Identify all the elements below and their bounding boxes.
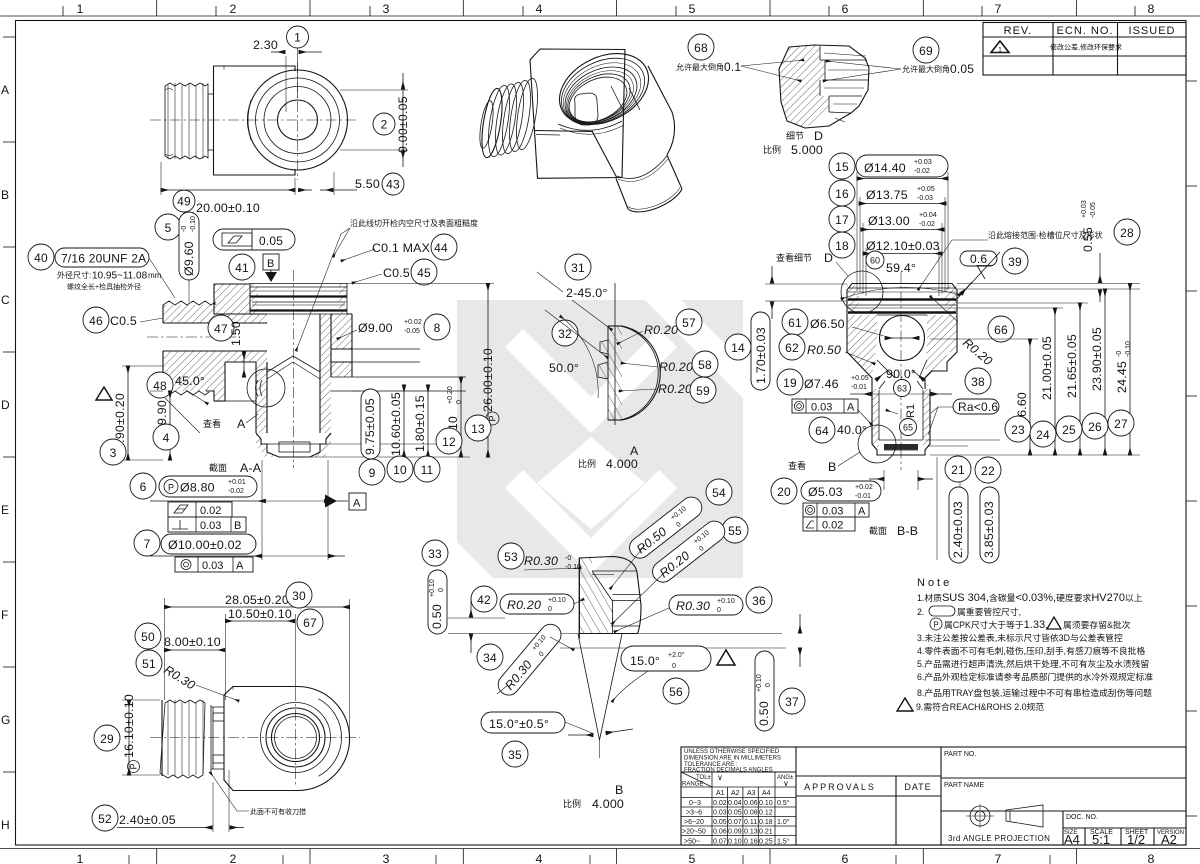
svg-text:0.06: 0.06 [744,800,758,807]
svg-text:21: 21 [951,463,965,477]
svg-text:0.16: 0.16 [744,839,758,846]
svg-text:4.零件表面不可有毛刺,碰伤,压印,刮手,有感刀痕等不良批格: 4.零件表面不可有毛刺,碰伤,压印,刮手,有感刀痕等不良批格 [917,645,1145,656]
vertical dim 21.65±0.05 [1065,303,1080,455]
svg-text:Ø14.40: Ø14.40 [864,161,906,175]
svg-text:52: 52 [98,812,112,826]
svg-text:C0.5: C0.5 [110,314,137,328]
balloon 18 [829,232,855,258]
svg-text:ISSUED: ISSUED [1129,25,1176,37]
svg-text:12: 12 [442,435,456,449]
svg-text:0.12: 0.12 [759,810,773,817]
svg-text:ECN. NO.: ECN. NO. [1057,25,1114,37]
svg-text:B: B [234,520,241,532]
detail A indicator circle [247,369,285,407]
svg-text:8: 8 [434,321,441,335]
balloon 37 + 0.50 pill right [755,614,805,731]
svg-text:允许最大倒角: 允许最大倒角 [902,64,950,74]
svg-text:8: 8 [1147,852,1154,864]
extension verticals for bore dims [262,460,328,560]
svg-text:0.02: 0.02 [713,800,727,807]
dim 10.50±0.10 [225,607,295,700]
svg-text:FRACTION DECIMALS ANGLES: FRACTION DECIMALS ANGLES [684,768,773,774]
svg-text:+0.03: +0.03 [1081,200,1088,218]
balloon 64 40.0° [809,417,867,443]
svg-text:+0.10: +0.10 [717,598,735,605]
svg-text:A: A [236,560,244,572]
balloon 69 and leader [823,37,974,81]
svg-text:0.05: 0.05 [713,819,727,826]
approvals / date header [804,782,932,792]
svg-text:R0.20: R0.20 [659,360,693,374]
svg-text:56: 56 [669,685,683,699]
svg-text:P: P [168,483,174,493]
extension lines of diameter stack [857,172,948,296]
svg-text:6: 6 [140,480,147,494]
balloon 21 pill 2.40±0.03 [945,456,971,563]
svg-text:31: 31 [571,261,585,275]
svg-text:7: 7 [144,537,151,551]
svg-text:69: 69 [919,44,933,58]
svg-text:A-A: A-A [240,461,262,475]
svg-text:8: 8 [1147,2,1154,16]
svg-text:0: 0 [438,588,445,592]
svg-text:0.25: 0.25 [759,839,773,846]
svg-text:-0.05: -0.05 [404,328,420,335]
dim 2.30 [253,38,322,112]
svg-text:61: 61 [788,316,802,330]
svg-text:Ø10.00±0.02: Ø10.00±0.02 [168,538,242,552]
iso bore thread rings [548,40,661,139]
svg-text:属CPK尺寸大于等于1.33,: 属CPK尺寸大于等于1.33, [944,619,1048,631]
svg-text:0.21: 0.21 [759,829,773,836]
svg-text:2.: 2. [917,607,924,617]
svg-text:11: 11 [421,463,434,477]
balloon 9 [359,459,385,485]
svg-text:2.30: 2.30 [253,38,278,52]
watermark logo square [457,300,743,578]
svg-text:B: B [615,783,623,797]
svg-text:0~3: 0~3 [689,800,701,807]
svg-text:7: 7 [994,852,1001,864]
svg-text:15: 15 [835,160,849,174]
svg-text:Ø13.00: Ø13.00 [868,214,910,228]
svg-text:25: 25 [1062,423,1076,437]
svg-text:50: 50 [141,630,155,644]
svg-text:2-45.0°: 2-45.0° [566,286,608,300]
vertical dim 21.00±0.05 [1040,308,1055,455]
svg-text:3.85±0.03: 3.85±0.03 [982,501,996,558]
svg-text:-0.02: -0.02 [914,168,930,175]
balloon 7 pill Ø10.00±0.02 [134,530,256,556]
svg-text:C0.5: C0.5 [383,266,410,280]
svg-text:2.40±0.05: 2.40±0.05 [119,813,176,827]
svg-text:-0.03: -0.03 [917,195,933,202]
svg-text:14: 14 [731,341,745,355]
svg-text:Note: Note [917,577,952,589]
svg-text:Ø6.50: Ø6.50 [810,317,845,331]
svg-text:>50~: >50~ [684,839,700,846]
svg-text:+0.10: +0.10 [548,597,566,604]
balloon 36 pill R0.30 [614,587,772,632]
balloon 19 Ø7.46 [777,369,952,395]
svg-text:+0.20: +0.20 [447,386,454,404]
svg-text:-0.10: -0.10 [565,564,581,571]
R1 + balloon 65 [886,404,917,436]
svg-text:比例: 比例 [763,144,781,155]
svg-text:16.10±0.10: 16.10±0.10 [122,694,136,758]
dim Ø13.00 [861,212,944,230]
svg-text:A: A [858,506,866,518]
svg-text:0.02: 0.02 [822,520,843,532]
svg-text:4: 4 [163,431,170,445]
svg-text:67: 67 [303,616,317,630]
dim pill Ø14.40 [856,155,948,179]
svg-text:UNLESS OTHERWISE SPECIFIED: UNLESS OTHERWISE SPECIFIED [684,749,780,755]
svg-text:+0.05: +0.05 [851,375,869,382]
svg-text:9: 9 [369,466,376,480]
svg-text:10.60±0.05: 10.60±0.05 [389,392,403,456]
dim 17.90±0.20 [113,366,163,460]
svg-text:18: 18 [835,239,849,253]
svg-text:+0.01: +0.01 [228,479,246,486]
dim line to datum A [150,500,348,502]
svg-text:0.07: 0.07 [728,819,742,826]
svg-text:2.40±0.03: 2.40±0.03 [951,501,965,558]
dim P26.00±0.10 [481,284,499,458]
svg-text:10.95~11.08: 10.95~11.08 [92,271,148,282]
unless otherwise specified text [684,749,781,774]
dim 9.90 [150,391,170,460]
svg-text:0.05: 0.05 [950,62,974,76]
svg-text:49: 49 [177,195,191,209]
svg-text:7/16 20UNF 2A: 7/16 20UNF 2A [61,252,146,266]
svg-text:0.09: 0.09 [728,829,742,836]
svg-text:26.00±0.10: 26.00±0.10 [481,348,495,412]
A-A left boss upper [163,284,267,323]
balloon 40 pill 7/16 20UNF 2A [28,244,175,298]
note 沿此线切开 leader [296,218,478,351]
svg-text:R0.30: R0.30 [524,554,558,568]
svg-text:0.07: 0.07 [713,839,727,846]
balloon 6 pill Ø8.80 [130,473,257,499]
svg-text:55: 55 [728,524,742,538]
balloon 11 [414,456,440,482]
balloon 30 [286,582,312,608]
svg-text:0.03: 0.03 [811,402,832,414]
svg-text:0.05: 0.05 [728,810,742,817]
svg-text:7: 7 [994,2,1001,16]
svg-text:0.03: 0.03 [202,560,223,572]
svg-text:0: 0 [456,400,463,404]
A-A bottom foot [256,433,331,457]
R0.20 + balloon 58 [621,351,718,377]
A-A body center columns [214,305,352,433]
C0.1 MAX + balloon 44 [341,234,457,261]
svg-text:A2: A2 [1161,832,1177,847]
balloon 50 [135,623,161,649]
svg-text:16: 16 [835,187,849,201]
balloon 51 R0.30 [136,650,239,701]
svg-text:查看: 查看 [203,418,221,429]
svg-text:1.材质SUS 304,含碳量<0.03%,硬度要求HV27: 1.材质SUS 304,含碳量<0.03%,硬度要求HV270以上 [917,592,1143,604]
balloon 17 [829,206,855,232]
svg-text:4: 4 [535,2,542,16]
balloon 47 + 1.50 [208,315,244,377]
svg-text:30: 30 [292,589,306,603]
balloon 61 Ø6.50 [782,309,884,336]
bottom-left thread boss [160,700,211,778]
A-A right vertical dims extension lines [310,284,494,458]
flatness pill 0.05 + balloon 41 [213,229,295,280]
centerline B-B part [900,272,902,470]
svg-text:90.0°: 90.0° [886,367,916,381]
svg-text:DOC. NO.: DOC. NO. [1066,814,1098,821]
vertical dim 24.45 [1115,284,1132,456]
balloon 12 [436,428,462,454]
dim Ø12.10 [863,239,942,254]
svg-text:68: 68 [694,41,708,55]
zone numbers top [76,2,1154,16]
svg-text:45: 45 [417,266,431,280]
svg-text:41: 41 [235,261,249,275]
svg-text:螺纹全长+检具抽检外径: 螺纹全长+检具抽检外径 [67,282,141,291]
svg-text:Ø8.80: Ø8.80 [180,481,215,495]
balloon 5 pill Ø9.60 [155,212,199,302]
doc no / size scale sheet version [1064,814,1184,847]
R0.20 + balloon 57 [617,309,702,344]
svg-text:+0.04: +0.04 [919,212,937,219]
svg-text:C0.1 MAX: C0.1 MAX [372,241,430,255]
svg-text:-0.02: -0.02 [228,488,244,495]
zone ticks top [63,0,1135,16]
svg-text:5: 5 [165,221,172,235]
svg-text:50.0°: 50.0° [549,361,579,375]
svg-text:-0.01: -0.01 [851,384,867,391]
0.55 vertical dim + balloon 28 [1081,200,1140,302]
svg-text:9.90: 9.90 [155,400,169,425]
balloon 20 + Ø5.03 pill [771,478,881,504]
svg-text:A3: A3 [747,790,756,797]
svg-text:-0.10: -0.10 [1125,341,1132,357]
zone numbers bottom [76,852,1154,864]
centerlines [150,119,356,121]
svg-text:H: H [1,818,10,832]
svg-text:3.未注公差按公差表,未标示尺寸皆依3D与公差表管控: 3.未注公差按公差表,未标示尺寸皆依3D与公差表管控 [917,632,1123,643]
balloon 33 + 0.50 pill left [422,540,471,653]
svg-text:1.50: 1.50 [229,321,243,346]
svg-text:+0.02: +0.02 [404,319,422,326]
warning triangle detail B [717,650,735,665]
detail B labels [563,783,624,811]
svg-text:4.000: 4.000 [606,457,638,471]
svg-text:+0.02: +0.02 [855,484,873,491]
svg-text:允许最大倒角: 允许最大倒角 [676,62,724,72]
svg-text:17: 17 [835,213,849,227]
svg-text:0: 0 [672,663,676,670]
balloon 49 [173,190,195,212]
svg-text:+0.10: +0.10 [756,674,763,692]
svg-text:+0.05: +0.05 [917,186,935,193]
dim 14.10 [446,377,463,457]
balloon 54 pill R0.50 rotated [610,479,732,589]
svg-text:53: 53 [504,550,518,564]
balloon 60 and 59.4° [841,251,960,299]
svg-text:9.需符合REACH&ROHS 2.0规范: 9.需符合REACH&ROHS 2.0规范 [916,701,1044,712]
B-B frame runout [803,503,869,518]
svg-text:沿此线切开检内空尺寸及表面粗糙度: 沿此线切开检内空尺寸及表面粗糙度 [350,218,478,228]
svg-text:比例: 比例 [563,798,581,809]
svg-text:mm: mm [148,271,162,280]
svg-text:3: 3 [382,2,389,16]
svg-text:属须要存留&批次: 属须要存留&批次 [1063,619,1131,630]
svg-text:15.0°: 15.0° [630,654,660,668]
svg-text:65: 65 [903,423,913,433]
iso bottom spout cylinder [616,155,682,212]
svg-text:1: 1 [76,852,83,864]
detail A shape [598,283,660,425]
balloon 14 [725,334,751,360]
svg-text:1.0°: 1.0° [777,818,790,826]
A-A left boss lower + threads [163,351,267,401]
svg-text:66: 66 [994,323,1008,337]
balloon 68 and leader [676,34,804,81]
balloon 31 + 2-45.0° [537,254,612,330]
balloon 34 pill R0.30 rotated [477,620,574,699]
svg-text:34: 34 [483,651,497,665]
section part body walls [847,315,957,389]
svg-text:15.0°±0.5°: 15.0°±0.5° [489,717,549,731]
Ø9.00 + balloon 8 [337,314,450,340]
dim 20.00±0.10 bottom [161,162,295,215]
svg-text:0.03: 0.03 [713,810,727,817]
note 此面不可有收刀措 [210,772,306,816]
svg-text:1.70±0.03: 1.70±0.03 [754,327,768,384]
balloon 26 [1082,413,1108,439]
svg-text:截面: 截面 [209,462,227,473]
svg-text:29: 29 [100,732,114,746]
A-A top collar rings [250,284,347,315]
svg-text:-0.02: -0.02 [919,221,935,228]
svg-text:43: 43 [386,178,400,192]
svg-text:5:1: 5:1 [1092,832,1110,847]
svg-text:54: 54 [712,486,726,500]
svg-text:-0: -0 [565,555,571,562]
iso bore inside [566,86,640,125]
balloon 27 [1108,410,1134,436]
svg-text:A: A [353,498,361,510]
pill 0.6 + finish triangle + balloon 39 [955,248,1028,301]
svg-text:-0.05: -0.05 [1090,202,1097,218]
svg-text:2: 2 [229,2,236,16]
svg-text:-0.10: -0.10 [190,216,197,232]
frame cylindricity 0.02 [168,502,232,517]
balloon 55 pill R0.20 rotated [612,517,748,624]
svg-text:A2: A2 [731,790,740,797]
R0.20 rotated + balloon 66 [930,296,1014,368]
dim 9.00±0.05 right [340,73,410,167]
svg-text:查看: 查看 [788,460,806,471]
svg-text:42: 42 [477,593,491,607]
bottom-left body [224,687,350,791]
svg-text:此面不可有收刀措: 此面不可有收刀措 [250,807,306,816]
svg-text:R0.20: R0.20 [658,382,692,396]
C0.5 + balloon 45 [352,259,437,285]
svg-text:外径尺寸:: 外径尺寸: [57,270,91,280]
dim line Ø10.00 [150,555,345,557]
svg-text:0.13: 0.13 [744,829,758,836]
zone ticks bottom [129,849,1077,864]
svg-text:APPROVALS: APPROVALS [804,782,876,792]
detail D labels [763,129,823,157]
balloon 35 pill 15.0°±0.5° [481,712,592,767]
svg-text:4.000: 4.000 [592,797,624,811]
svg-text:0.50: 0.50 [757,701,771,726]
svg-text:0.11: 0.11 [744,819,757,826]
dim 8.00±0.10 [164,635,225,650]
balloon 4 [153,424,179,450]
svg-text:5: 5 [688,852,695,864]
svg-text:A: A [237,417,246,431]
svg-text:60: 60 [870,256,880,266]
svg-text:24: 24 [1036,428,1050,442]
svg-text:8.产品用TRAY盘包装,运输过程中不可有串检造成刮伤等问题: 8.产品用TRAY盘包装,运输过程中不可有串检造成刮伤等问题 [917,687,1152,698]
svg-text:>3~6: >3~6 [686,810,702,817]
detail B blob [579,557,641,640]
svg-text:>6~20: >6~20 [684,819,704,826]
dim 1.80±0.15 [413,385,428,457]
svg-text:23: 23 [1011,423,1025,437]
body rectangle [208,66,295,175]
frame perpendicularity 0.03 B [168,517,246,532]
svg-text:PART NO.: PART NO. [944,751,976,758]
iso big cylinder shoulder [558,66,675,155]
svg-text:59: 59 [696,384,710,398]
svg-text:A: A [630,444,639,458]
svg-text:45.0°: 45.0° [175,374,205,388]
balloon 2 [373,113,395,135]
balloon 24 [1030,421,1056,447]
svg-text:B: B [267,258,274,270]
balloon 46 C0.5 [83,307,163,333]
svg-text:A: A [1,83,9,97]
dim 10.60±0.05 [389,385,404,457]
svg-text:21.65±0.05: 21.65±0.05 [1065,334,1079,398]
svg-text:1: 1 [998,47,1002,54]
svg-text:-0: -0 [1116,351,1123,357]
svg-text:6: 6 [841,852,848,864]
Ra<0.6 pill + balloon 38 [928,368,999,435]
svg-text:0: 0 [548,606,552,613]
svg-text:40: 40 [34,251,48,265]
balloon 22 pill 3.85±0.03 [975,457,1001,563]
svg-text:DIMENSION ARE IN MILLIMETERS: DIMENSION ARE IN MILLIMETERS [684,756,781,762]
svg-text:37: 37 [785,695,799,709]
90.0° + balloon 63 [876,367,924,397]
svg-text:0.6: 0.6 [970,252,987,266]
svg-text:REV.: REV. [1004,25,1033,37]
svg-text:4: 4 [535,852,542,864]
B-B frame cylindricity [803,517,855,532]
svg-text:5: 5 [688,2,695,16]
svg-text:A1: A1 [716,790,725,797]
svg-text:28: 28 [1120,226,1134,240]
svg-text:10: 10 [393,463,407,477]
截面 A-A label [209,461,262,475]
svg-text:3: 3 [110,446,117,460]
svg-text:1.5°: 1.5° [777,838,790,846]
bottom small dims 2.40 / 3.85 [925,440,1000,560]
R0.20 + balloon 59 [619,377,716,403]
